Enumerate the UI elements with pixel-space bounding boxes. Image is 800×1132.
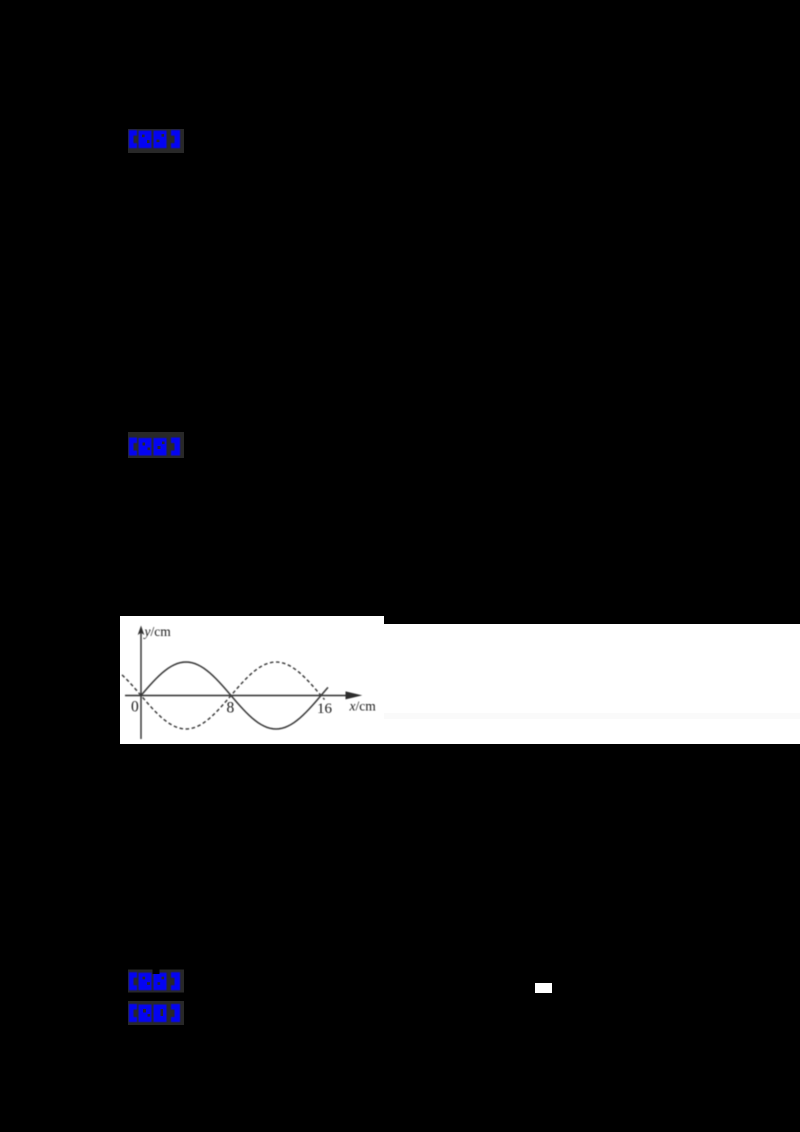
svg-text:x/cm: x/cm — [349, 699, 377, 714]
solid wave — [141, 662, 328, 729]
label key-point 【分析】 — [128, 968, 184, 994]
white band (image paragraph background) — [120, 624, 800, 744]
y axis — [140, 633, 142, 739]
label detail 【详解】 — [128, 1000, 184, 1026]
dashed wave — [122, 662, 325, 729]
svg-text:16: 16 — [317, 701, 333, 717]
svg-text:8: 8 — [227, 700, 235, 717]
label answer 【答案】 — [128, 128, 184, 154]
faint shading line in band — [384, 713, 800, 719]
x axis — [125, 695, 354, 697]
svg-text:y/cm: y/cm — [143, 624, 172, 639]
graph image : wave diagram on white — [120, 616, 384, 743]
label analysis 【解析】 — [128, 432, 184, 458]
svg-text:0: 0 — [131, 699, 139, 716]
inline formula fragment (white) — [535, 983, 552, 993]
